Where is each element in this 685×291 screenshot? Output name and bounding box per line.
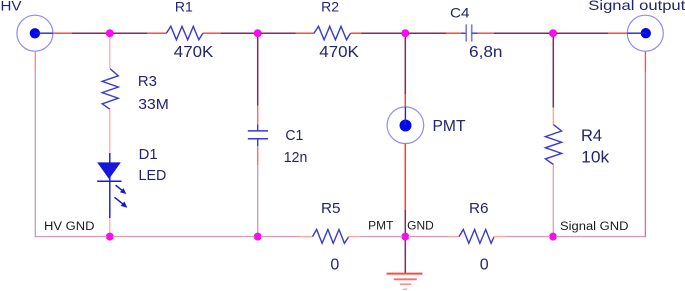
- wire R5 to J7: [360, 236, 402, 238]
- svg-text:R2: R2: [321, 0, 339, 15]
- wire R4 to bottom rail: [552, 165, 554, 233]
- wire R3 to D1: [109, 109, 111, 153]
- wire Signal output drop to bottom rail: [644, 72, 646, 237]
- pin R5 left: [300, 236, 313, 238]
- wire J7 to ground: [404, 240, 406, 273]
- ground: [387, 274, 423, 290]
- wire PMT to J7: [404, 210, 406, 233]
- node J8: [549, 233, 557, 241]
- connector HV: [17, 15, 53, 51]
- pin R2 left (red): [296, 32, 315, 34]
- wire J5 to J6: [113, 236, 255, 238]
- pin C4 right (red): [478, 32, 495, 34]
- pin C1 top (red): [257, 106, 259, 125]
- pin R5 right: [348, 236, 360, 238]
- wire J2 to R2: [261, 32, 296, 34]
- svg-text:C4: C4: [450, 5, 470, 21]
- resistor R2: [314, 26, 351, 40]
- wire J3 to C4: [408, 32, 446, 34]
- wire J7 to R6: [408, 236, 448, 238]
- node J2: [254, 29, 262, 37]
- connector Signal output: [627, 15, 663, 51]
- svg-text:GND: GND: [407, 221, 434, 233]
- wire HV pin lead (red): [53, 32, 72, 34]
- pin R6 left: [448, 236, 460, 238]
- pin PMT bottom (red): [404, 144, 406, 210]
- node J4: [549, 29, 557, 37]
- node J6: [254, 233, 262, 241]
- pin Signal output shield (red): [644, 51, 646, 72]
- resistor R3: [102, 69, 118, 110]
- svg-text:PMT: PMT: [433, 118, 467, 135]
- resistor R1: [166, 26, 203, 40]
- wire bottom rail HV GND segment: [35, 236, 107, 238]
- svg-text:HV: HV: [1, 0, 23, 13]
- svg-text:LED: LED: [139, 168, 167, 184]
- capacitor C1: [248, 125, 268, 147]
- wire C4 to J4: [494, 32, 550, 34]
- svg-text:33M: 33M: [138, 96, 169, 113]
- resistor R4: [545, 125, 561, 165]
- resistor R5: [313, 230, 349, 244]
- node J1: [106, 29, 114, 37]
- svg-text:R3: R3: [138, 74, 157, 90]
- svg-text:R4: R4: [581, 127, 602, 145]
- pin R2 right (red): [351, 32, 362, 34]
- wire J8 to Signal output drop: [556, 236, 646, 238]
- wire HV shield drop pin (washed red): [34, 51, 36, 70]
- pin R1 left (red): [147, 32, 167, 34]
- wire J3 down to PMT: [404, 37, 406, 94]
- svg-text:Signal output: Signal output: [588, 0, 685, 13]
- svg-text:Signal GND: Signal GND: [560, 221, 629, 233]
- svg-text:0: 0: [330, 256, 339, 273]
- label PMT GND: [368, 221, 434, 233]
- node J5: [106, 233, 114, 241]
- wire R6 to J8: [506, 236, 550, 238]
- svg-text:HV GND: HV GND: [44, 221, 95, 233]
- svg-text:PMT: PMT: [368, 221, 393, 233]
- resistor R6: [459, 230, 494, 244]
- pin R6 right: [494, 236, 507, 238]
- pin R1 right (red): [203, 32, 221, 34]
- connector PMT: [387, 107, 424, 144]
- svg-text:470K: 470K: [319, 44, 359, 61]
- wire J4 to Signal output: [556, 32, 608, 34]
- svg-text:0: 0: [480, 256, 489, 273]
- LED D1: [97, 153, 127, 218]
- svg-text:R5: R5: [321, 200, 341, 217]
- wire J1 down to R3: [109, 37, 111, 68]
- pin Signal output (red): [608, 32, 627, 34]
- svg-text:R6: R6: [469, 200, 489, 217]
- node J3: [401, 29, 409, 37]
- svg-text:470K: 470K: [174, 44, 214, 61]
- wire R2 to J3: [362, 32, 403, 34]
- wire C1 to bottom rail: [257, 165, 259, 233]
- pin C4 left (red): [446, 32, 461, 34]
- svg-text:D1: D1: [139, 147, 158, 163]
- svg-text:C1: C1: [285, 127, 303, 144]
- capacitor C4: [461, 24, 478, 41]
- node J7: [401, 233, 409, 241]
- pin C1 bottom (red): [257, 146, 259, 165]
- wire R1 to J2: [221, 32, 255, 34]
- wire J4 down to R4: [552, 37, 554, 108]
- wire J6 to R5: [261, 236, 300, 238]
- svg-text:10k: 10k: [581, 148, 609, 167]
- svg-text:6,8n: 6,8n: [469, 44, 503, 61]
- svg-text:12n: 12n: [284, 149, 308, 166]
- wire HV to J1: [72, 32, 107, 34]
- svg-text:R1: R1: [175, 0, 193, 15]
- wire J2 down to C1: [257, 37, 259, 106]
- wire J1 to R1: [113, 32, 147, 34]
- pin R4 top: [552, 108, 554, 126]
- wire D1 to bottom rail: [109, 218, 111, 233]
- pin PMT top (red): [404, 94, 406, 107]
- wire HV drop to bottom rail: [34, 70, 36, 237]
